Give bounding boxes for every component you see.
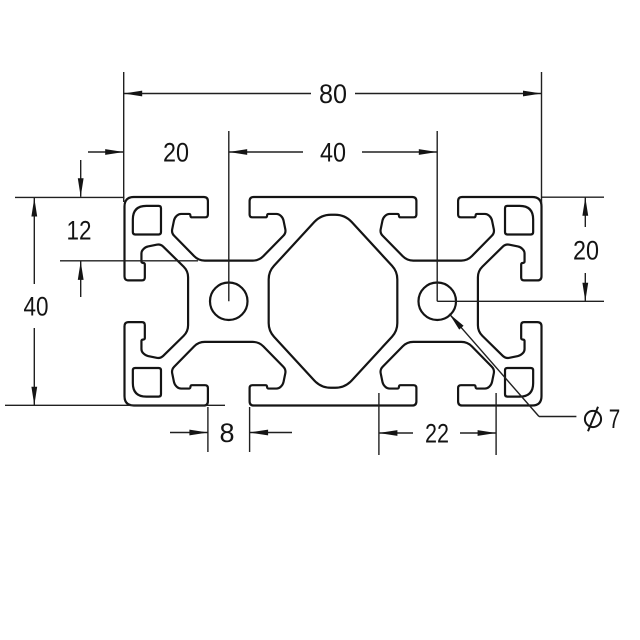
svg-text:40: 40: [320, 138, 346, 168]
dimension 40 (hole spacing): [229, 151, 303, 153]
extension line: profile left edge (for 80 dim): [123, 72, 125, 202]
extension line: slot cavity width left (for 22 dim): [378, 393, 380, 455]
extension line: bottom slot opening left (for 8 dim): [207, 407, 209, 452]
label Ø7 (hole diameter): [585, 411, 601, 427]
dimension 20 (edge to hole center): [88, 151, 124, 153]
dimension 80 (overall width): [124, 93, 311, 95]
dimension 20 (top edge to hole center): [584, 197, 586, 227]
extension line: bottom slot opening right (for 8 dim): [249, 407, 251, 452]
corner cavity bottom-right: [505, 368, 533, 397]
svg-text:20: 20: [163, 138, 189, 168]
svg-text:22: 22: [425, 419, 449, 449]
dimension 22 (slot cavity width): [379, 432, 413, 434]
svg-text:80: 80: [319, 79, 347, 109]
svg-text:20: 20: [573, 236, 599, 266]
extension line: top edge extended right (for 20 dim): [542, 196, 605, 198]
profile outer outline with six T-slot cavities: [125, 197, 542, 406]
centerline: left hole vertical (for 40 dim): [228, 131, 230, 301]
svg-text:8: 8: [219, 418, 234, 448]
central octagonal cavity: [269, 215, 398, 388]
extension line: slot cavity bottom extended left (for 12 dim): [60, 260, 198, 262]
extension line: bottom edge extended left (for 40 dim): [5, 404, 225, 406]
svg-text:40: 40: [24, 292, 49, 322]
dimension 8 (slot opening width): [170, 432, 208, 434]
svg-text:7: 7: [609, 404, 621, 434]
dimension 40 (overall height): [33, 198, 35, 284]
centerline: right hole vertical (for 40 dim): [436, 131, 438, 301]
svg-text:12: 12: [67, 216, 92, 246]
extension line: top edge extended left (for 12 and 40 dims): [15, 196, 125, 198]
dimension 12 (slot cavity depth): [80, 160, 82, 197]
corner cavity top-right: [505, 206, 533, 235]
left core hole Ø7: [210, 282, 248, 320]
centerline: right hole horizontal extended right (for 20 dim): [437, 300, 604, 302]
right core hole Ø7: [418, 282, 456, 320]
corner cavity top-left: [133, 206, 161, 235]
extension line: slot cavity width right (for 22 dim): [495, 393, 497, 455]
extension line: profile right edge (for 80 dim): [541, 72, 543, 203]
corner cavity bottom-left: [133, 368, 161, 397]
leader arrow for hole diameter Ø7: [449, 314, 539, 417]
